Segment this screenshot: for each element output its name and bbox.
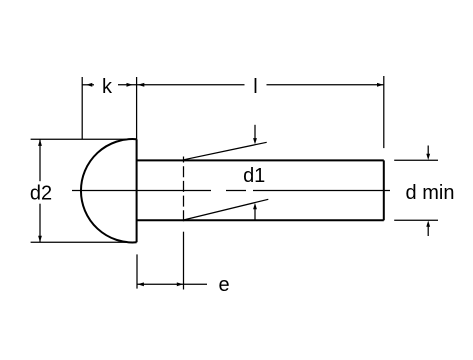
extension line d2 top [31, 138, 137, 140]
extension line d2 bottom [31, 241, 137, 243]
svg-text:d2: d2 [30, 183, 52, 205]
extension line d min top [394, 159, 438, 161]
d1 arrow bottom [254, 209, 256, 221]
svg-text:e: e [218, 274, 229, 296]
arrow l left [138, 83, 145, 87]
arrow k left [86, 83, 92, 87]
dimension line l [137, 84, 384, 86]
centerline axis [72, 190, 390, 192]
arrow e left [137, 282, 144, 286]
svg-text:d1: d1 [243, 165, 265, 187]
rivet head outline arc [81, 139, 137, 242]
d1 arrow top [254, 125, 256, 140]
arrow e right [177, 282, 183, 286]
extension line d min bottom [394, 219, 438, 221]
extension line k right / l left [136, 77, 138, 139]
svg-text:k: k [102, 76, 113, 98]
d1 oblique witness line top [184, 142, 267, 160]
shank bottom edge [137, 219, 384, 221]
shank top edge [137, 159, 384, 161]
svg-text:l: l [253, 76, 257, 98]
dimension line k [82, 84, 136, 86]
arrow d2 up [38, 139, 42, 146]
extension line k left [81, 77, 83, 139]
extension line e left [136, 254, 138, 288]
extension line l right [383, 76, 385, 148]
arrow d2 down [38, 236, 42, 242]
dimension line e [137, 283, 207, 285]
dimension line d2 [39, 139, 41, 242]
dashed reference line at head joint [183, 157, 185, 290]
shank end face [383, 160, 385, 220]
arrow l right [377, 83, 383, 87]
rivet head face line [136, 139, 138, 242]
arrow d min top [427, 146, 429, 155]
arrow d min bottom [427, 226, 429, 236]
d1 oblique witness line bottom [184, 199, 269, 220]
svg-text:d min: d min [406, 182, 455, 204]
arrow k right [127, 83, 133, 87]
